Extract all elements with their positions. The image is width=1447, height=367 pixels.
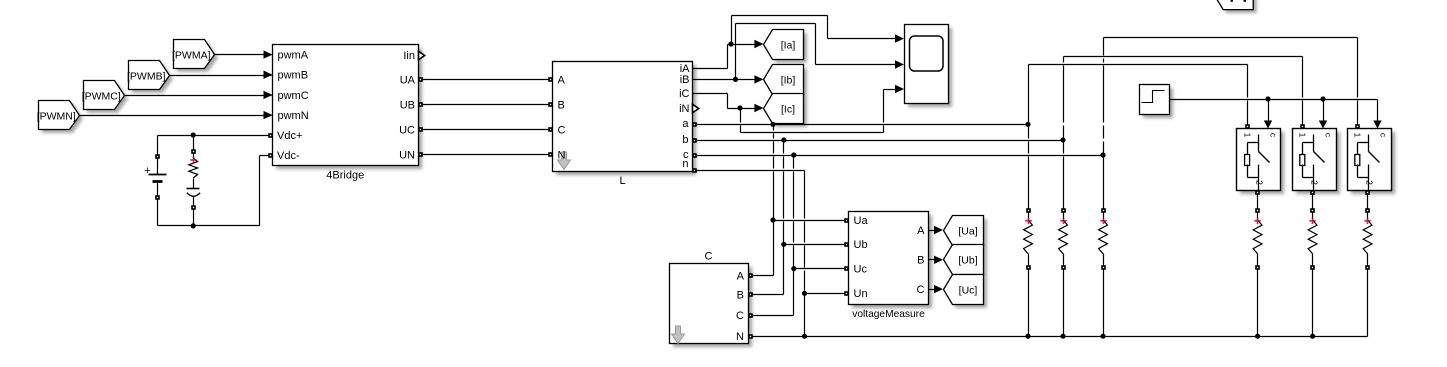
svg-text:UB: UB [400, 100, 415, 112]
svg-text:iC: iC [679, 88, 689, 100]
svg-text:B: B [558, 100, 565, 112]
svg-text:iB: iB [680, 74, 690, 86]
svg-text:1: 1 [1242, 133, 1252, 138]
svg-text:Vdc-: Vdc- [277, 150, 300, 162]
svg-text:L: L [619, 175, 625, 187]
svg-text:voltageMeasure: voltageMeasure [852, 309, 925, 320]
svg-text:UA: UA [400, 74, 416, 86]
svg-text:N: N [736, 331, 744, 343]
svg-text:2: 2 [1310, 180, 1320, 185]
svg-text:2: 2 [1365, 180, 1375, 185]
svg-text:pwmB: pwmB [278, 70, 309, 82]
svg-text:[PWMA]: [PWMA] [172, 49, 211, 61]
svg-text:A: A [558, 74, 566, 86]
svg-text:Vdc+: Vdc+ [277, 130, 302, 142]
svg-text:C: C [736, 310, 744, 322]
svg-text:+: + [144, 165, 150, 177]
svg-text:C: C [705, 251, 713, 263]
svg-text:[PWMC]: [PWMC] [82, 90, 121, 102]
svg-text:[Ia]: [Ia] [781, 39, 796, 51]
svg-text:A: A [737, 270, 745, 282]
svg-text:[Uc]: [Uc] [959, 284, 978, 296]
svg-text:Ub: Ub [854, 239, 868, 251]
svg-text:Un: Un [854, 288, 868, 300]
svg-text:n: n [682, 158, 688, 170]
svg-text:a: a [682, 118, 689, 130]
svg-text:UN: UN [399, 150, 415, 162]
svg-text:pwmN: pwmN [278, 110, 309, 122]
svg-text:b: b [682, 134, 688, 146]
svg-text:[Ua]: [Ua] [958, 225, 977, 237]
svg-text:[Ub]: [Ub] [958, 254, 977, 266]
svg-text:Ua: Ua [854, 215, 869, 227]
svg-text:C: C [917, 284, 925, 296]
svg-text:UC: UC [399, 125, 415, 137]
svg-text:[PWMN]: [PWMN] [37, 110, 76, 122]
svg-text:c: c [1324, 133, 1334, 138]
svg-text:[Ic]: [Ic] [781, 103, 795, 115]
svg-text:A: A [917, 225, 925, 237]
svg-text:Uc: Uc [854, 264, 868, 276]
svg-text:Iin: Iin [403, 50, 415, 62]
svg-text:pwmA: pwmA [278, 50, 309, 62]
svg-text:B: B [737, 289, 744, 301]
svg-text:N: N [558, 150, 566, 162]
svg-text:1: 1 [1298, 133, 1308, 138]
svg-text:[PWMB]: [PWMB] [127, 70, 166, 82]
svg-text:c: c [1379, 133, 1389, 138]
svg-text:1: 1 [1353, 133, 1363, 138]
svg-text:[Ib]: [Ib] [781, 74, 796, 86]
svg-text:4Bridge: 4Bridge [326, 170, 364, 182]
svg-text:pwmC: pwmC [278, 90, 309, 102]
svg-text:iN: iN [679, 103, 689, 115]
svg-text:2: 2 [1254, 180, 1264, 185]
svg-text:C: C [558, 125, 566, 137]
svg-text:B: B [917, 255, 924, 267]
